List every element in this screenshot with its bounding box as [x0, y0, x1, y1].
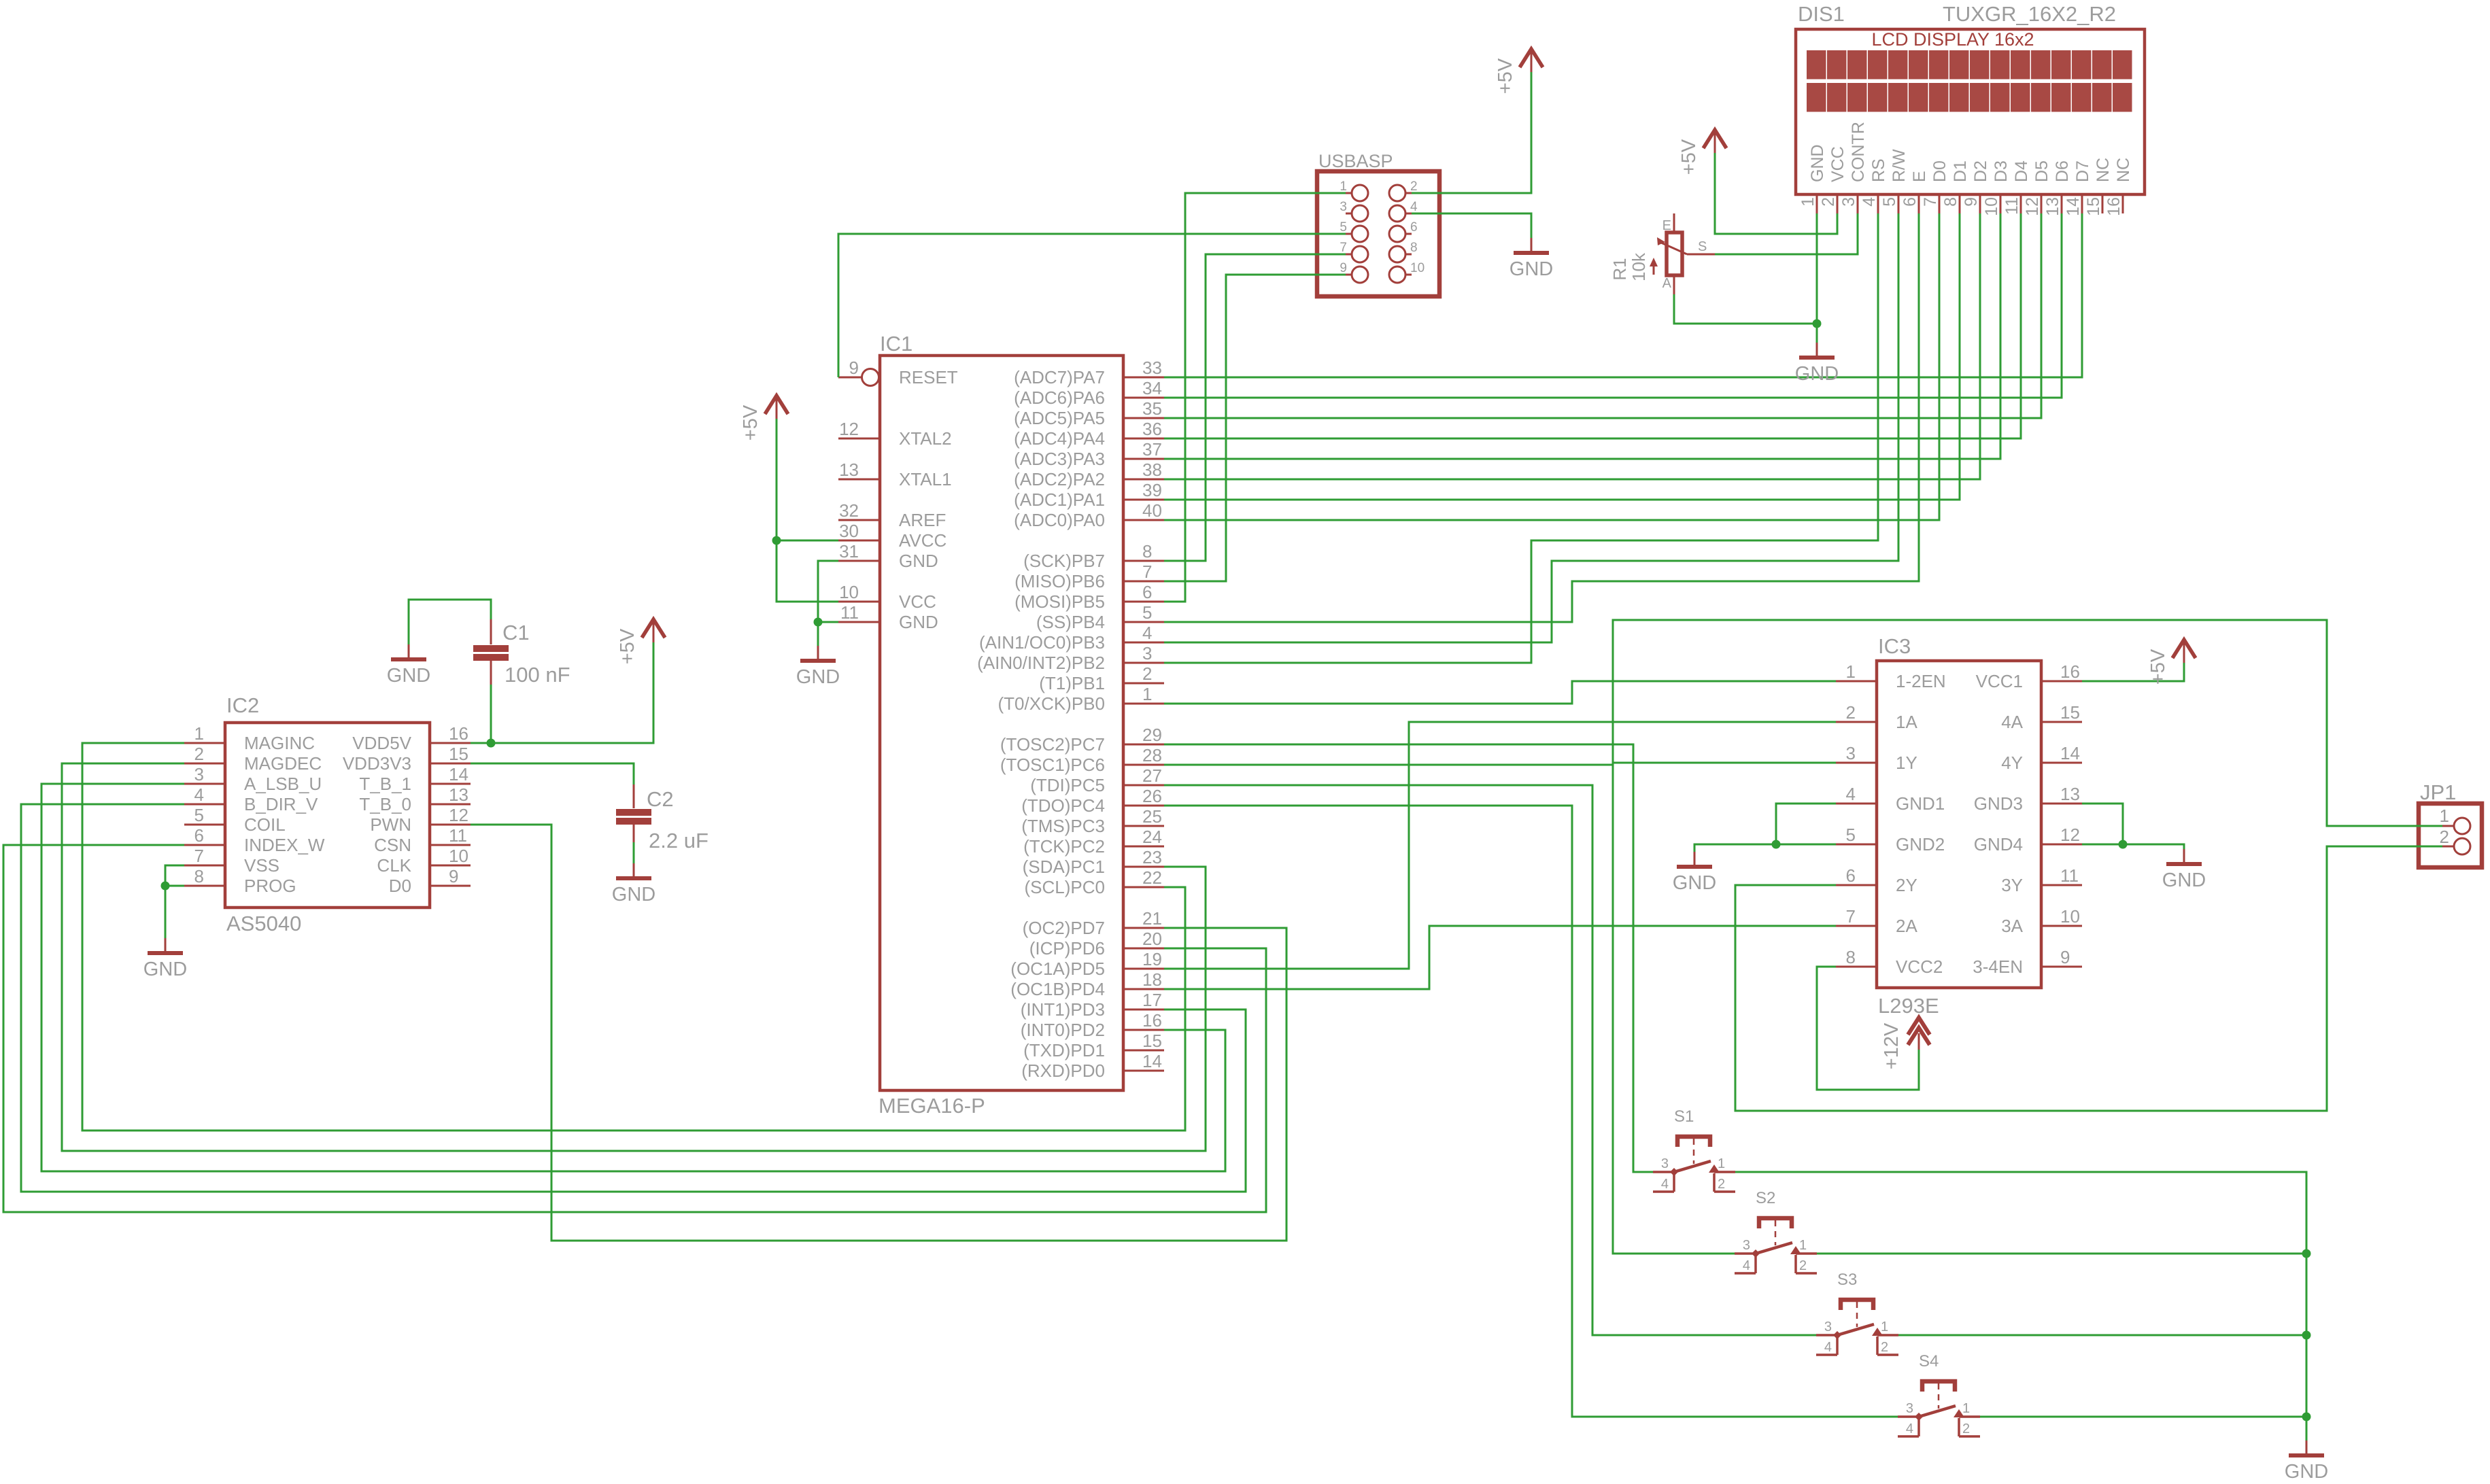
svg-text:(MISO)PB6: (MISO)PB6	[1014, 571, 1105, 591]
svg-text:COIL: COIL	[244, 814, 286, 835]
svg-text:GND1: GND1	[1896, 793, 1945, 814]
svg-text:+5V: +5V	[1495, 58, 1516, 94]
svg-text:6: 6	[1142, 582, 1152, 602]
svg-text:2: 2	[1881, 1340, 1888, 1355]
svg-text:8: 8	[194, 866, 204, 886]
svg-text:6: 6	[1900, 197, 1920, 207]
svg-text:IC1: IC1	[880, 332, 913, 356]
svg-text:1: 1	[1718, 1156, 1725, 1171]
svg-text:3Y: 3Y	[2001, 875, 2023, 895]
svg-text:CLK: CLK	[377, 855, 411, 876]
svg-text:(ADC3)PA3: (ADC3)PA3	[1014, 449, 1105, 469]
svg-text:7: 7	[1142, 562, 1152, 582]
svg-text:XTAL2: XTAL2	[899, 428, 952, 449]
svg-text:VCC1: VCC1	[1976, 671, 2023, 691]
svg-text:(AIN1/OC0)PB3: (AIN1/OC0)PB3	[979, 632, 1105, 653]
svg-text:RS: RS	[1869, 158, 1888, 182]
svg-text:GND: GND	[1795, 363, 1839, 385]
svg-text:31: 31	[839, 541, 859, 562]
svg-text:VDD5V: VDD5V	[352, 733, 411, 753]
svg-text:14: 14	[2060, 743, 2080, 763]
svg-text:2A: 2A	[1896, 916, 1917, 936]
svg-text:4A: 4A	[2001, 712, 2023, 732]
svg-text:28: 28	[1142, 745, 1162, 765]
svg-text:22: 22	[1142, 867, 1162, 888]
svg-text:14: 14	[2064, 197, 2083, 216]
svg-text:20: 20	[1142, 929, 1162, 949]
svg-text:12: 12	[2060, 825, 2080, 845]
svg-text:2: 2	[1410, 179, 1418, 194]
svg-text:7: 7	[1846, 906, 1856, 927]
svg-text:NC: NC	[2094, 158, 2113, 182]
svg-text:(SCK)PB7: (SCK)PB7	[1023, 551, 1105, 571]
svg-text:3: 3	[1906, 1401, 1913, 1416]
svg-text:4: 4	[1846, 784, 1856, 804]
svg-text:2: 2	[1718, 1177, 1725, 1192]
svg-text:17: 17	[1142, 990, 1162, 1010]
svg-text:D7: D7	[2073, 160, 2092, 182]
svg-text:3: 3	[194, 764, 204, 784]
svg-text:(ADC4)PA4: (ADC4)PA4	[1014, 428, 1105, 449]
svg-text:10: 10	[1982, 197, 2001, 216]
svg-text:16: 16	[2060, 661, 2080, 682]
svg-text:E: E	[1910, 171, 1929, 182]
svg-text:1: 1	[1881, 1319, 1888, 1334]
svg-text:5: 5	[1340, 220, 1347, 235]
svg-text:D1: D1	[1951, 160, 1970, 182]
svg-text:INDEX_W: INDEX_W	[244, 835, 325, 855]
svg-text:(ADC1)PA1: (ADC1)PA1	[1014, 489, 1105, 510]
svg-text:MAGDEC: MAGDEC	[244, 753, 322, 774]
svg-text:IC2: IC2	[226, 693, 259, 717]
svg-text:24: 24	[1142, 827, 1162, 847]
svg-text:A_LSB_U: A_LSB_U	[244, 774, 322, 794]
svg-text:GND: GND	[2285, 1461, 2328, 1483]
svg-text:1-2EN: 1-2EN	[1896, 671, 1946, 691]
svg-text:29: 29	[1142, 725, 1162, 745]
svg-text:1Y: 1Y	[1896, 753, 1917, 773]
svg-text:5: 5	[1846, 825, 1856, 845]
svg-text:15: 15	[2084, 197, 2103, 216]
svg-text:(TMS)PC3: (TMS)PC3	[1021, 816, 1105, 836]
svg-text:A: A	[1662, 276, 1672, 291]
svg-text:32: 32	[839, 500, 859, 521]
svg-text:4: 4	[194, 784, 204, 805]
svg-text:D3: D3	[1992, 160, 2011, 182]
svg-text:(AIN0/INT2)PB2: (AIN0/INT2)PB2	[977, 653, 1105, 673]
svg-text:19: 19	[1142, 949, 1162, 969]
svg-text:4: 4	[1860, 197, 1879, 207]
svg-text:1: 1	[1846, 661, 1856, 682]
svg-text:12: 12	[839, 419, 859, 439]
svg-text:+5V: +5V	[1678, 139, 1700, 175]
svg-text:GND: GND	[1808, 144, 1827, 182]
svg-text:R/W: R/W	[1890, 149, 1909, 182]
svg-text:VCC: VCC	[1828, 146, 1847, 182]
svg-text:9: 9	[1340, 261, 1347, 275]
svg-text:LCD DISPLAY 16x2: LCD DISPLAY 16x2	[1871, 29, 2034, 50]
svg-text:15: 15	[449, 744, 468, 764]
svg-text:2Y: 2Y	[1896, 875, 1917, 895]
svg-text:CONTR: CONTR	[1849, 122, 1868, 182]
svg-text:16: 16	[2104, 197, 2124, 216]
svg-text:4: 4	[1743, 1258, 1750, 1273]
svg-text:USBASP: USBASP	[1318, 151, 1393, 171]
svg-text:+12V: +12V	[1881, 1022, 1903, 1069]
svg-text:(OC1B)PD4: (OC1B)PD4	[1010, 979, 1105, 999]
svg-text:3A: 3A	[2001, 916, 2023, 936]
svg-text:11: 11	[840, 602, 859, 623]
svg-text:2: 2	[2440, 827, 2449, 847]
svg-text:S1: S1	[1674, 1107, 1694, 1126]
svg-text:3: 3	[1661, 1156, 1669, 1171]
svg-text:6: 6	[1846, 865, 1856, 886]
svg-text:+5V: +5V	[740, 404, 762, 441]
svg-text:10: 10	[449, 846, 468, 866]
svg-text:D0: D0	[1930, 160, 1949, 182]
svg-text:(ADC5)PA5: (ADC5)PA5	[1014, 408, 1105, 428]
svg-text:GND: GND	[899, 612, 938, 632]
svg-text:2: 2	[1962, 1421, 1970, 1436]
svg-text:VDD3V3: VDD3V3	[343, 753, 411, 774]
svg-text:(TDO)PC4: (TDO)PC4	[1021, 795, 1105, 816]
svg-text:GND: GND	[143, 959, 187, 980]
svg-text:(OC2)PD7: (OC2)PD7	[1023, 918, 1105, 938]
svg-text:12: 12	[449, 805, 468, 825]
svg-text:(ADC7)PA7: (ADC7)PA7	[1014, 367, 1105, 387]
svg-text:DIS1: DIS1	[1798, 2, 1845, 26]
svg-text:VCC: VCC	[899, 591, 936, 612]
svg-text:30: 30	[839, 521, 859, 541]
svg-text:RESET: RESET	[899, 367, 958, 387]
svg-text:14: 14	[1142, 1051, 1162, 1071]
svg-text:5: 5	[1880, 197, 1899, 207]
svg-text:13: 13	[2060, 784, 2080, 804]
svg-text:3: 3	[1340, 200, 1347, 214]
svg-text:S2: S2	[1756, 1189, 1775, 1207]
svg-text:(OC1A)PD5: (OC1A)PD5	[1010, 959, 1105, 979]
svg-text:12: 12	[2023, 197, 2042, 216]
svg-text:2: 2	[1142, 663, 1152, 684]
svg-text:3: 3	[1824, 1319, 1832, 1334]
svg-text:16: 16	[449, 723, 468, 744]
svg-text:(TOSC1)PC6: (TOSC1)PC6	[1000, 755, 1105, 775]
svg-text:1: 1	[1142, 684, 1152, 704]
svg-text:37: 37	[1142, 439, 1162, 460]
svg-text:1: 1	[1340, 179, 1347, 194]
svg-text:25: 25	[1142, 806, 1162, 827]
svg-text:CSN: CSN	[374, 835, 411, 855]
svg-text:GND: GND	[899, 551, 938, 571]
svg-text:(INT1)PD3: (INT1)PD3	[1021, 999, 1105, 1020]
svg-text:1: 1	[194, 723, 204, 744]
svg-text:9: 9	[2060, 947, 2070, 967]
svg-text:GND: GND	[796, 666, 840, 688]
svg-text:(ADC0)PA0: (ADC0)PA0	[1014, 510, 1105, 530]
svg-text:(SCL)PC0: (SCL)PC0	[1025, 877, 1105, 897]
svg-text:(TDI)PC5: (TDI)PC5	[1030, 775, 1105, 795]
svg-text:IC3: IC3	[1878, 634, 1911, 658]
svg-text:GND3: GND3	[1974, 793, 2023, 814]
svg-text:39: 39	[1142, 480, 1162, 500]
svg-text:GND: GND	[1673, 872, 1716, 894]
svg-text:(RXD)PD0: (RXD)PD0	[1021, 1060, 1105, 1081]
svg-text:26: 26	[1142, 786, 1162, 806]
svg-text:1: 1	[1799, 1238, 1807, 1253]
svg-text:38: 38	[1142, 460, 1162, 480]
svg-text:MAGINC: MAGINC	[244, 733, 315, 753]
svg-text:10k: 10k	[1628, 252, 1649, 281]
svg-text:D0: D0	[389, 876, 411, 896]
svg-text:5: 5	[1142, 602, 1152, 623]
svg-text:3: 3	[1142, 643, 1152, 663]
svg-text:4: 4	[1824, 1340, 1832, 1355]
svg-text:(SS)PB4: (SS)PB4	[1036, 612, 1105, 632]
svg-text:PWN: PWN	[370, 814, 411, 835]
svg-text:40: 40	[1142, 500, 1162, 521]
svg-text:4: 4	[1410, 200, 1418, 214]
svg-text:7: 7	[1921, 197, 1940, 207]
svg-text:+5V: +5V	[2147, 649, 2169, 685]
svg-text:3-4EN: 3-4EN	[1973, 956, 2023, 977]
svg-text:VCC2: VCC2	[1896, 956, 1943, 977]
svg-text:TUXGR_16X2_R2: TUXGR_16X2_R2	[1943, 2, 2116, 26]
svg-text:S4: S4	[1919, 1352, 1939, 1370]
svg-text:9: 9	[449, 866, 458, 886]
svg-text:D5: D5	[2032, 160, 2051, 182]
svg-text:GND: GND	[387, 665, 430, 687]
svg-text:2: 2	[194, 744, 204, 764]
svg-text:2.2 uF: 2.2 uF	[649, 829, 709, 852]
svg-text:AVCC: AVCC	[899, 530, 946, 551]
svg-text:(TXD)PD1: (TXD)PD1	[1023, 1040, 1105, 1060]
svg-text:S3: S3	[1837, 1271, 1857, 1289]
svg-text:9: 9	[1962, 197, 1981, 207]
svg-text:15: 15	[2060, 702, 2080, 723]
svg-text:33: 33	[1142, 358, 1162, 378]
svg-text:AS5040: AS5040	[226, 912, 301, 935]
svg-text:1A: 1A	[1896, 712, 1917, 732]
svg-text:(INT0)PD2: (INT0)PD2	[1021, 1020, 1105, 1040]
svg-text:D6: D6	[2053, 160, 2072, 182]
svg-text:18: 18	[1142, 969, 1162, 990]
svg-text:16: 16	[1142, 1010, 1162, 1031]
svg-text:3: 3	[1846, 743, 1856, 763]
svg-text:(T1)PB1: (T1)PB1	[1039, 673, 1105, 693]
svg-text:(MOSI)PB5: (MOSI)PB5	[1014, 591, 1105, 612]
svg-text:1: 1	[2440, 806, 2449, 826]
svg-text:L293E: L293E	[1878, 994, 1939, 1018]
svg-text:10: 10	[839, 582, 859, 602]
svg-text:8: 8	[1846, 947, 1856, 967]
svg-text:C1: C1	[502, 621, 530, 644]
svg-text:(T0/XCK)PB0: (T0/XCK)PB0	[998, 693, 1106, 714]
svg-text:GND4: GND4	[1974, 834, 2023, 855]
svg-text:(ADC6)PA6: (ADC6)PA6	[1014, 387, 1105, 408]
svg-text:GND: GND	[612, 884, 655, 905]
svg-text:2: 2	[1846, 702, 1856, 723]
svg-text:3: 3	[1743, 1238, 1750, 1253]
svg-text:4: 4	[1142, 623, 1152, 643]
svg-text:S: S	[1698, 239, 1707, 254]
svg-text:XTAL1: XTAL1	[899, 469, 952, 489]
svg-text:15: 15	[1142, 1031, 1162, 1051]
svg-text:23: 23	[1142, 847, 1162, 867]
svg-text:13: 13	[449, 784, 468, 805]
svg-text:D2: D2	[1971, 160, 1990, 182]
svg-text:T_B_0: T_B_0	[359, 794, 411, 814]
svg-text:3: 3	[1839, 197, 1858, 207]
svg-text:B_DIR_V: B_DIR_V	[244, 794, 318, 814]
svg-text:100 nF: 100 nF	[505, 663, 570, 687]
svg-text:1: 1	[1962, 1401, 1970, 1416]
svg-text:(TCK)PC2: (TCK)PC2	[1023, 836, 1105, 857]
svg-text:8: 8	[1410, 241, 1418, 255]
svg-text:10: 10	[1410, 261, 1425, 275]
svg-text:GND: GND	[1510, 258, 1553, 280]
svg-text:VSS: VSS	[244, 855, 279, 876]
svg-text:35: 35	[1142, 398, 1162, 419]
svg-text:10: 10	[2060, 906, 2080, 927]
svg-text:34: 34	[1142, 378, 1162, 398]
svg-text:4: 4	[1661, 1177, 1669, 1192]
svg-text:6: 6	[1410, 220, 1418, 235]
svg-text:4: 4	[1906, 1421, 1913, 1436]
svg-text:GND: GND	[2162, 869, 2206, 891]
svg-text:MEGA16-P: MEGA16-P	[879, 1094, 985, 1118]
svg-text:C2: C2	[647, 787, 674, 811]
svg-text:5: 5	[194, 805, 204, 825]
svg-text:8: 8	[1941, 197, 1960, 207]
svg-text:GND2: GND2	[1896, 834, 1945, 855]
svg-text:14: 14	[449, 764, 468, 784]
svg-text:(TOSC2)PC7: (TOSC2)PC7	[1000, 734, 1105, 755]
svg-text:7: 7	[1340, 241, 1347, 255]
svg-text:36: 36	[1142, 419, 1162, 439]
svg-text:21: 21	[1142, 908, 1162, 929]
svg-text:9: 9	[849, 358, 859, 378]
svg-text:4Y: 4Y	[2001, 753, 2023, 773]
svg-text:D4: D4	[2012, 160, 2031, 182]
svg-text:6: 6	[194, 825, 204, 846]
svg-text:NC: NC	[2114, 158, 2133, 182]
svg-text:11: 11	[2002, 197, 2022, 215]
svg-text:(SDA)PC1: (SDA)PC1	[1023, 857, 1105, 877]
svg-text:(ADC2)PA2: (ADC2)PA2	[1014, 469, 1105, 489]
svg-text:11: 11	[449, 825, 467, 846]
svg-text:R1: R1	[1609, 258, 1630, 280]
svg-text:2: 2	[1799, 1258, 1807, 1273]
svg-text:2: 2	[1819, 197, 1838, 207]
svg-text:7: 7	[194, 846, 204, 866]
svg-text:JP1: JP1	[2420, 780, 2456, 804]
svg-text:(ICP)PD6: (ICP)PD6	[1029, 938, 1105, 959]
svg-text:8: 8	[1142, 541, 1152, 562]
svg-text:11: 11	[2060, 865, 2079, 886]
svg-text:T_B_1: T_B_1	[359, 774, 411, 794]
svg-text:PROG: PROG	[244, 876, 296, 896]
svg-text:+5V: +5V	[617, 628, 638, 664]
svg-text:13: 13	[839, 460, 859, 480]
svg-text:AREF: AREF	[899, 510, 946, 530]
svg-text:27: 27	[1142, 765, 1162, 786]
svg-text:E: E	[1662, 218, 1671, 233]
svg-text:1: 1	[1798, 197, 1818, 207]
svg-text:13: 13	[2043, 197, 2062, 216]
